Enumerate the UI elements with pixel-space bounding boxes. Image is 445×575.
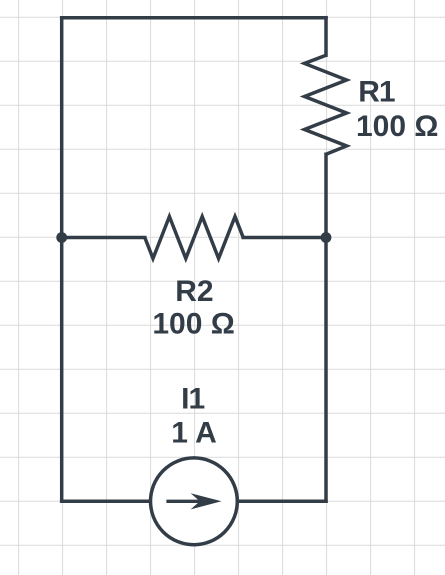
resistor R2 (zigzag) — [145, 217, 243, 259]
current source I1: circle body — [151, 458, 238, 545]
svg-text:100 Ω: 100 Ω — [152, 308, 234, 341]
current source I1: arrow shaft — [166, 500, 201, 503]
wire: right side upper lead to R1 — [324, 18, 328, 56]
svg-text:I1: I1 — [181, 382, 204, 415]
current source I1: arrow head — [191, 493, 222, 509]
resistor R1 (zigzag) — [305, 55, 347, 154]
wire: left side — [60, 18, 64, 502]
node: left junction dot — [56, 232, 67, 243]
wire: middle right segment (R2 to node) — [243, 236, 326, 240]
wire: top side — [62, 16, 326, 20]
wire: bottom side — [62, 500, 326, 504]
node: right junction dot — [321, 232, 332, 243]
wire: middle left segment (node to R2) — [62, 236, 145, 240]
svg-text:1 A: 1 A — [171, 417, 217, 450]
svg-text:R1: R1 — [358, 75, 395, 108]
svg-text:100 Ω: 100 Ω — [356, 110, 438, 143]
wire: right side lower (R1 to bottom corner) — [324, 154, 328, 501]
svg-text:R2: R2 — [175, 275, 213, 308]
